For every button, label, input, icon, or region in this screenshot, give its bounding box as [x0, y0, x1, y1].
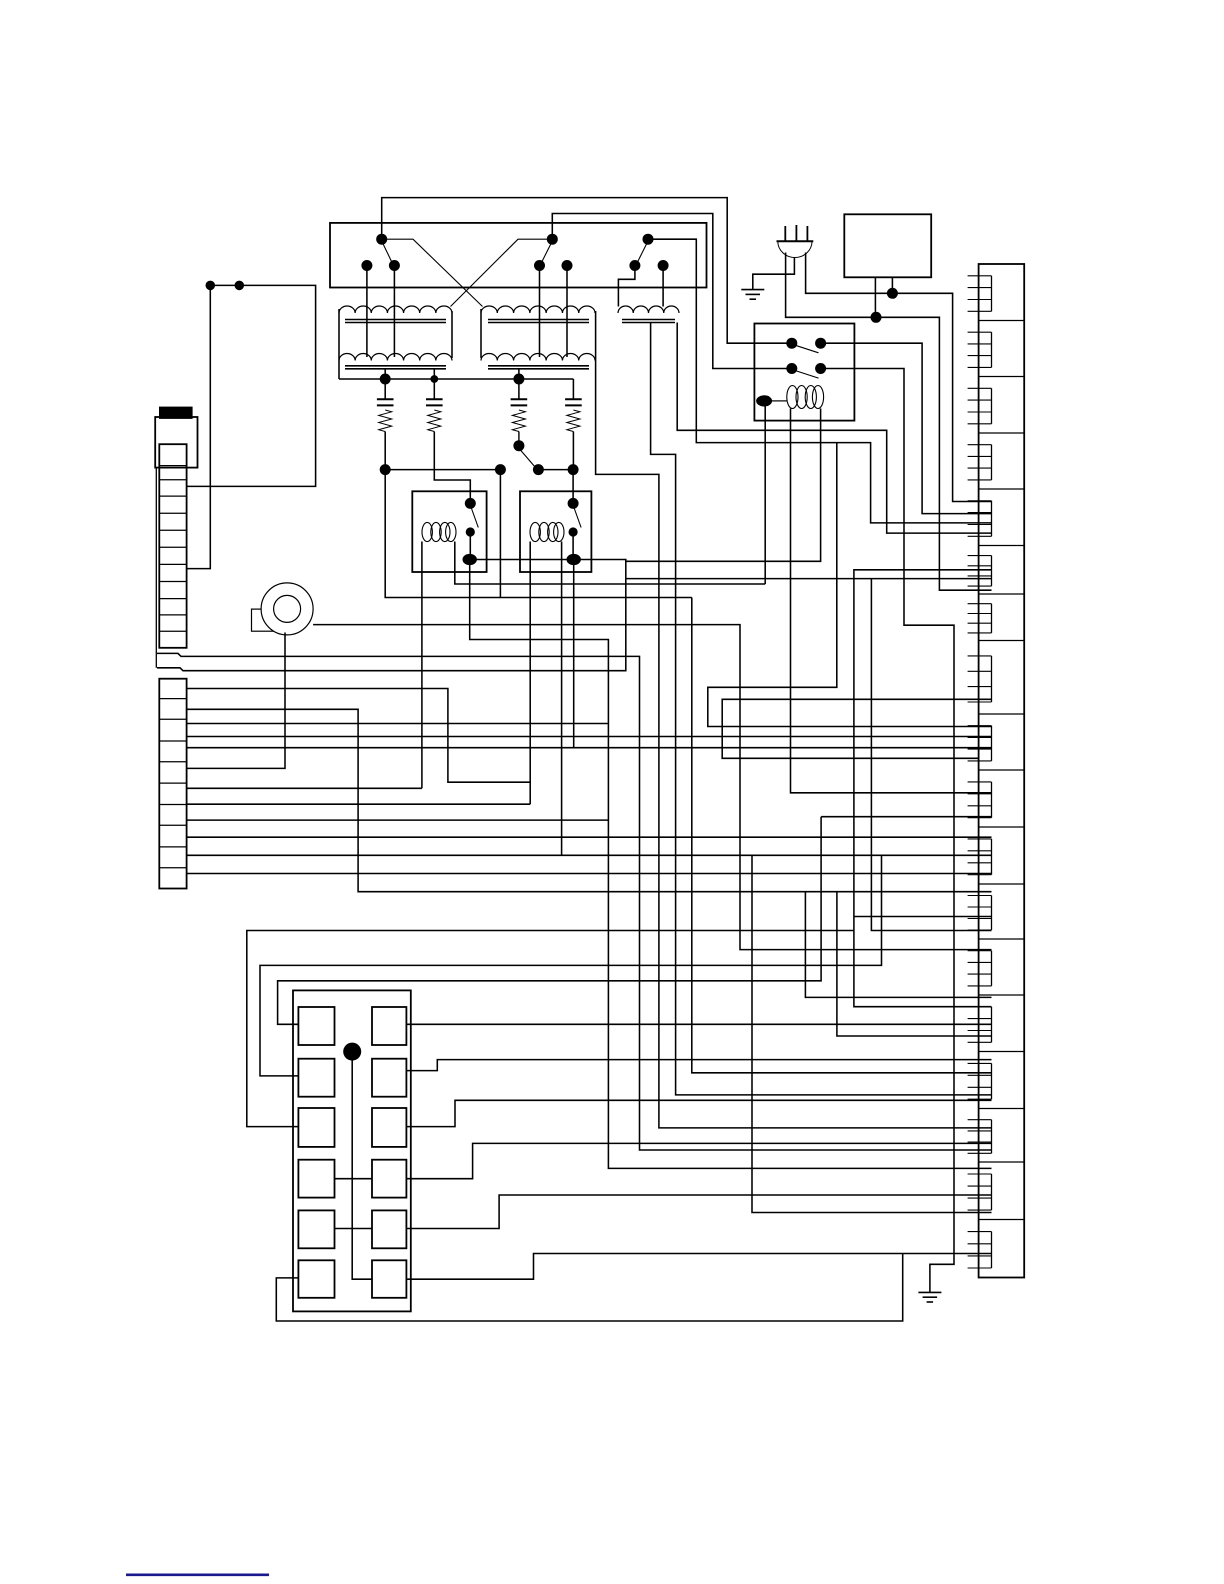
wire K3 sw2 out	[821, 369, 954, 1293]
wire K1-K2 commons	[470, 559, 574, 561]
keypad key L3	[298, 1108, 334, 1147]
relay K2 blade	[574, 509, 581, 528]
wire S2b to T2	[566, 266, 568, 358]
relay K3 switch2 contact b	[815, 363, 826, 374]
connector CN17 pins	[968, 1174, 992, 1210]
transformer T2 core	[488, 320, 589, 323]
transformer T3 lead 1 to bus	[651, 323, 992, 1095]
wire K3 coil lead B	[626, 409, 821, 562]
node bus tap 2	[430, 369, 438, 399]
plug P1 prongs	[785, 225, 807, 241]
switch S1 contact b	[389, 260, 400, 271]
keypad key L5	[298, 1210, 334, 1248]
transformer T3 winding	[618, 306, 679, 313]
node bus tap 3	[513, 369, 524, 399]
relay K3 switch1 blade	[795, 345, 819, 353]
wire CN-B 4	[187, 747, 992, 749]
wire K2 common stub	[573, 564, 575, 748]
switch S2 contact b	[562, 260, 573, 271]
node thermal switch S4	[513, 432, 524, 452]
keypad key L4	[298, 1160, 334, 1198]
keypad key R2	[372, 1059, 406, 1097]
resistor R3	[512, 410, 525, 432]
keypad link row4	[335, 1178, 373, 1180]
wire R4 to N3	[572, 432, 574, 470]
footer rule	[126, 1574, 269, 1577]
wire trunk a	[692, 598, 992, 1073]
wire N2 down	[499, 470, 501, 598]
wire CN-B 5	[187, 787, 422, 789]
keypad common node	[343, 1043, 361, 1061]
wire R1 to node N1	[385, 432, 500, 470]
wire N3 to relay K2	[572, 470, 574, 504]
wire TB1 down to CN-A	[187, 285, 211, 568]
wire keypad out6	[406, 1254, 991, 1280]
wire plug neutral	[786, 253, 992, 591]
wire crossover A	[382, 239, 483, 306]
relay K2 box	[520, 491, 591, 572]
keypad key R1	[372, 1007, 406, 1045]
resistor R1	[379, 410, 392, 432]
connector CN2 pins	[968, 332, 992, 367]
transformer T3 lead 2 to CN column	[677, 323, 991, 534]
node S4 out	[533, 464, 544, 475]
transformer T3 core	[622, 320, 675, 323]
node N1	[380, 464, 391, 475]
junction-box J1 (top selector box)	[330, 223, 707, 288]
switch S1 blade	[382, 241, 393, 264]
resistor R4	[567, 410, 580, 432]
fan M1 body	[261, 583, 313, 635]
wire K3 coil lead A	[791, 409, 992, 793]
wire S1 common to relay K3 switch 1	[382, 198, 792, 344]
wire keypad out4	[406, 1143, 991, 1178]
wire CN-B 10	[187, 873, 992, 875]
keypad key L6	[298, 1260, 334, 1298]
wire TB1-TB2	[210, 284, 239, 286]
wire S1a to T1	[366, 266, 368, 358]
relay K1 coil lead left	[421, 542, 423, 789]
transformer T1 primary winding	[339, 306, 452, 313]
relay K1 contact 1	[465, 498, 476, 509]
relay K2 contact 1	[568, 498, 579, 509]
wire S3 common to CN column	[648, 239, 992, 523]
node U1-live	[887, 288, 898, 299]
wire commons to door ladder	[157, 560, 626, 671]
switch S3 contact a	[629, 260, 640, 271]
wire CN-B 6	[187, 803, 531, 805]
wire K3 coil link	[771, 400, 787, 402]
fan M1 duct	[252, 609, 288, 631]
relay K3 coil	[787, 386, 824, 409]
relay K2 coil lead right	[561, 542, 563, 856]
wire trunk e	[805, 892, 991, 998]
wire K2 contact2 to common	[572, 532, 574, 560]
switch S1 contact a	[361, 260, 372, 271]
switch S4 blade	[520, 450, 536, 468]
capacitor C4	[565, 399, 582, 405]
keypad key R6	[372, 1260, 406, 1298]
filter box U1	[844, 214, 931, 277]
wire CN-B 1	[187, 689, 531, 783]
transformer T1 secondary winding	[339, 354, 452, 361]
relay K1 coil lead right	[455, 542, 765, 585]
wire keypad out5	[406, 1195, 991, 1229]
wire CN-B 2	[187, 709, 992, 891]
wire keypad row3 feed	[854, 570, 992, 1007]
switch S2 common node	[547, 234, 558, 245]
wire trunk b	[708, 443, 992, 727]
wire CN-B 8	[187, 836, 992, 838]
wire comb jumper	[854, 916, 992, 918]
wire plug live	[806, 253, 992, 502]
wire keypad out3	[406, 1100, 991, 1126]
relay K3 coil terminal	[756, 395, 772, 406]
switch S3 common node	[643, 234, 654, 245]
capacitor C3	[511, 399, 528, 405]
connector CN4 pins	[968, 445, 992, 480]
resistor R2	[428, 410, 441, 432]
wire keypad out1	[406, 1023, 991, 1025]
relay K3 switch2 contact a	[786, 363, 797, 374]
connector CN11 pins	[968, 839, 992, 875]
wire K3 sw1 out	[821, 343, 992, 513]
node N2	[495, 464, 506, 475]
wire CN-A door 1	[157, 653, 992, 1150]
connector CN8 pins	[968, 656, 992, 702]
connector CN18 pins	[968, 1232, 992, 1268]
wire keypad row3 branch	[247, 931, 854, 1127]
keypad key L1	[298, 1007, 334, 1045]
wire S3b to T3	[662, 266, 664, 307]
relay K2 coil lead left	[529, 542, 531, 805]
relay K2 coil	[530, 522, 564, 541]
wire N1 down-bus	[385, 470, 692, 598]
relay K3 switch2 blade	[795, 371, 819, 379]
connector CN-B (lower ladder)	[159, 679, 186, 889]
switch S2 blade	[541, 241, 552, 264]
wire trunk c	[722, 699, 991, 758]
node TB2	[235, 281, 245, 291]
transformer T1 right edge	[451, 311, 453, 358]
wire trunk d	[752, 855, 992, 1212]
keypad key R4	[372, 1160, 406, 1198]
ground GND1	[741, 290, 764, 300]
wire keypad out2	[406, 1060, 991, 1071]
relay K1 common	[463, 554, 477, 565]
connector CN7 pins	[968, 604, 992, 633]
wire keypad row2 feed	[260, 855, 992, 1076]
connector CN14 pins	[968, 1007, 992, 1043]
relay K3 switch1 contact b	[815, 338, 826, 349]
switch S3 blade	[637, 241, 648, 264]
fuse F1 body	[155, 417, 197, 468]
wire S4 to N3	[538, 469, 573, 471]
wire keypad return	[276, 1254, 902, 1322]
wire K3 coil terminal down	[764, 404, 766, 584]
keypad key L2	[298, 1059, 334, 1097]
wire S1b to T1	[393, 266, 395, 358]
keypad key R5	[372, 1210, 406, 1248]
connector CN12 pins	[968, 896, 992, 931]
keypad SW block	[293, 990, 411, 1311]
node U1-neutral	[871, 312, 882, 323]
connector CN9 pins	[968, 726, 992, 761]
connector CN16 pins	[968, 1120, 992, 1154]
relay K2 common	[567, 554, 581, 565]
wire U1 lead 1	[874, 277, 876, 317]
switch S1 common node	[376, 234, 387, 245]
wire keypad row1 feed	[278, 579, 992, 1025]
wire fan lead bottom	[187, 633, 285, 769]
transformer T1 core	[345, 320, 446, 323]
wire TB2 loop to CN-A	[187, 285, 316, 486]
wire S2a to T2	[539, 266, 541, 358]
connector CN10 pins	[968, 782, 992, 818]
wire CN-B 3b	[187, 723, 609, 725]
wire secondary bus	[339, 378, 573, 380]
wire S2 common to relay K3 switch 2	[552, 214, 792, 369]
keypad link row5	[335, 1228, 373, 1230]
fuse F1 cap	[160, 407, 192, 418]
wire CN-B 3	[187, 736, 992, 738]
relay K3 switch1 contact a	[786, 338, 797, 349]
transformer T2 primary winding	[481, 306, 595, 313]
wire K1 common down trunk	[470, 560, 992, 1169]
relay K2 contact 2	[569, 527, 578, 536]
capacitor C1	[377, 399, 394, 405]
connector CN15 pins	[968, 1063, 992, 1099]
relay K1 blade	[472, 509, 479, 528]
transformer T2 right lead to trunk	[596, 311, 992, 1128]
chassis line	[155, 468, 157, 668]
connector CN-A (upper ladder)	[159, 444, 186, 648]
ground GND2	[918, 1292, 941, 1302]
wire R2 to relay K1	[434, 432, 470, 504]
wire crossover B	[451, 239, 553, 306]
wire K1 contact2 to common	[469, 532, 471, 560]
plug P1 body	[777, 241, 814, 257]
transformer T2 secondary core	[488, 366, 589, 369]
connector CN13 pins	[968, 951, 992, 986]
wire bus end down	[572, 379, 574, 399]
relay K1 contact 2	[466, 527, 475, 536]
transformer T1 secondary core	[345, 366, 446, 369]
transformer T1 left lead	[338, 309, 340, 379]
node bus tap 1	[380, 369, 391, 399]
connector CN1 pins	[968, 276, 992, 312]
wire S3a to T3	[618, 266, 635, 307]
capacitor C2	[426, 399, 443, 405]
keypad key R3	[372, 1108, 406, 1147]
wire plug earth	[753, 258, 795, 290]
relay K1 box	[412, 491, 486, 572]
wire fan lead right	[313, 625, 991, 950]
connector CN3 pins	[968, 388, 992, 424]
switch S3 contact b	[658, 260, 669, 271]
wire CN-B 7	[187, 819, 609, 821]
node N3	[568, 464, 579, 475]
switch S2 contact a	[534, 260, 545, 271]
connector column CN1-CN18 outline	[979, 264, 1025, 1278]
node TB1	[206, 281, 216, 291]
wire U1 lead 2	[891, 277, 893, 293]
transformer T2 left edge	[480, 309, 482, 358]
relay K1 coil	[422, 522, 456, 541]
relay K3 box	[754, 324, 854, 421]
connector CN6 pins	[968, 556, 992, 587]
transformer T2 secondary winding	[481, 353, 595, 360]
wire CN-B 9	[187, 854, 992, 856]
connector CN5 pins	[968, 501, 992, 537]
keypad common rail	[352, 1052, 372, 1280]
